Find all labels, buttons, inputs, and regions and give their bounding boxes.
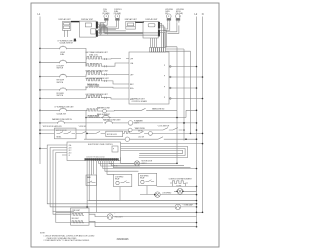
relay K3 [114, 174, 132, 186]
junction [183, 129, 185, 131]
connector bar J4B [158, 30, 160, 37]
wire [121, 157, 135, 163]
junction [202, 143, 204, 145]
junction [176, 163, 178, 165]
svg-text:J4 D: J4 D [69, 152, 72, 154]
switch S11 hi limit [101, 115, 111, 119]
probe jack circle [125, 137, 129, 141]
element light A [72, 213, 84, 215]
junction L1 [39, 133, 41, 135]
junction [176, 191, 178, 193]
wire [40, 130, 128, 148]
svg-text:LF SW: LF SW [60, 52, 65, 54]
junction L1 [39, 89, 41, 91]
svg-text:WARMER ZONE LIMIT: WARMER ZONE LIMIT [103, 119, 121, 122]
junction [86, 133, 88, 135]
lamp oven DS2 [175, 204, 180, 209]
junction L1 [39, 48, 41, 50]
switch S7 warmer limit [104, 120, 114, 124]
element RR surface [87, 78, 104, 81]
junction [196, 129, 198, 131]
svg-text:L1: L1 [38, 13, 41, 16]
wire [86, 86, 126, 88]
wire row RR [40, 76, 58, 78]
wire [103, 63, 126, 67]
wire [68, 109, 86, 111]
svg-text:LOW SPEED: LOW SPEED [115, 176, 123, 178]
junction [176, 117, 178, 119]
control pot VR4 [176, 9, 184, 23]
svg-text:* LOCK SW: * LOCK SW [78, 126, 87, 128]
control pot VR2 [114, 9, 122, 23]
switch S4 RF surface [58, 87, 68, 91]
switch S3 RR surface [58, 74, 68, 78]
junction [202, 133, 204, 135]
wire [140, 194, 197, 196]
control pot VR1 [102, 9, 110, 23]
junction [202, 212, 204, 214]
wire [84, 138, 125, 140]
svg-text:DISPLAY UNIT: DISPLAY UNIT [59, 18, 72, 21]
junction L1 [39, 62, 41, 64]
relay K4 vent fan [138, 173, 156, 185]
svg-text:LOW RISE: LOW RISE [176, 9, 184, 11]
wire pots to bundle [99, 23, 179, 35]
wire [68, 74, 86, 76]
node L2 [195, 13, 198, 227]
element warm zone [88, 85, 100, 88]
svg-text:OVEN: OVEN [165, 11, 170, 13]
svg-text:P: P [113, 148, 114, 150]
svg-text:LOW SPEED: LOW SPEED [162, 193, 172, 195]
svg-text:S-DUAL SW: S-DUAL SW [57, 113, 67, 116]
wire [85, 111, 87, 139]
wire EOC J4 loop [56, 153, 197, 223]
motor M3 cooling fan [155, 192, 160, 197]
display unit 4 [143, 18, 158, 38]
svg-text:J2 B: J2 B [69, 147, 72, 149]
wire [114, 122, 128, 124]
wire [86, 73, 126, 75]
wire [53, 211, 56, 213]
junction [182, 191, 184, 193]
svg-text:BROIL: BROIL [176, 11, 181, 13]
wire [68, 62, 86, 66]
wire [66, 122, 103, 124]
junction [196, 222, 198, 224]
switch S2 LR surface [58, 60, 68, 64]
node L1 [38, 13, 41, 164]
svg-text:MOTOR DOOR: MOTOR DOOR [56, 130, 67, 132]
connector bar J2A [96, 22, 98, 29]
node N [202, 13, 204, 212]
junction [86, 206, 88, 208]
motor M2 convection fan [177, 188, 183, 194]
svg-text:J3 C: J3 C [69, 150, 72, 152]
svg-text:J1 A: J1 A [69, 144, 72, 147]
svg-text:BAKE: BAKE [87, 176, 91, 179]
wire [106, 109, 196, 112]
junction L1 [39, 110, 41, 112]
element bake hidden [88, 115, 100, 117]
junction [196, 122, 198, 124]
junction [183, 122, 185, 124]
wire [132, 132, 138, 134]
svg-text:* MEAT PROBE: * MEAT PROBE [134, 127, 145, 130]
svg-text:J5: J5 [69, 155, 71, 157]
wire [130, 138, 156, 140]
wire row LF [40, 47, 58, 49]
ribbon connector P1 [71, 21, 80, 22]
svg-text:TB MDL: TB MDL [56, 136, 62, 138]
wire EOC J2 loop [50, 148, 175, 207]
svg-text:CON-: CON- [103, 9, 108, 11]
wire row warm zone [40, 97, 86, 99]
wire [89, 132, 94, 134]
svg-text:L2: L2 [195, 13, 198, 16]
lock switch S10 [155, 137, 197, 139]
wire [86, 97, 126, 99]
svg-text:SWITCH: SWITCH [57, 68, 64, 70]
element RF surface [87, 95, 104, 98]
switch S9c [138, 131, 149, 133]
junction [196, 186, 198, 188]
svg-text:*: * [115, 214, 116, 216]
element convection [172, 181, 185, 184]
connector blob [74, 39, 76, 42]
element probe [125, 131, 132, 133]
wire [84, 214, 107, 227]
wire [140, 162, 178, 164]
wire [132, 129, 159, 131]
motor M1 door latch [135, 161, 140, 166]
wire [103, 80, 126, 84]
svg-text:RF A: RF A [130, 87, 133, 90]
wire [174, 186, 197, 191]
svg-text:DISPLAY UNIT: DISPLAY UNIT [81, 18, 94, 21]
svg-text:CONTROL: CONTROL [114, 9, 122, 11]
board left pins [126, 58, 134, 101]
svg-text:OVN LIGHT: OVN LIGHT [115, 217, 123, 219]
wire EOC J1 loop [47, 145, 196, 204]
switch S12 [140, 108, 149, 110]
junction [196, 226, 198, 228]
indicator warm zone [103, 109, 107, 113]
junction [196, 168, 198, 170]
wire [86, 109, 103, 112]
control pot VR3 [165, 9, 173, 23]
switch S5 warmer [58, 108, 68, 112]
svg-text:NOTE:: NOTE: [40, 232, 46, 234]
wire row LR [40, 61, 58, 63]
junction [39, 129, 41, 131]
element LR surface [87, 72, 104, 75]
svg-text:BR LIGHT: BR LIGHT [72, 218, 79, 220]
notes text [40, 232, 95, 242]
oven light assembly [71, 208, 89, 225]
svg-text:DUAL COIL: DUAL COIL [89, 53, 98, 56]
display unit 1 [59, 18, 72, 37]
junction L1 [39, 76, 41, 78]
lock switch S8 [159, 128, 182, 130]
wire [68, 86, 86, 90]
lock switch S9 [80, 131, 89, 133]
relay K2 [86, 175, 97, 186]
svg-text:1 2 3 4 5 6 7 8 9 10 11 12 13: 1 2 3 4 5 6 7 8 9 10 11 12 13 14 [86, 156, 105, 158]
connector bar J4A [158, 22, 160, 29]
junction [196, 66, 198, 68]
wire EOC drops [87, 161, 196, 213]
svg-text:TROL: TROL [103, 11, 107, 13]
wire [170, 183, 188, 186]
junction [183, 122, 185, 124]
border frame [31, 3, 219, 247]
wire [152, 132, 202, 134]
wire right bundle [166, 47, 191, 164]
junction [154, 194, 156, 196]
wire box feeds [91, 186, 147, 201]
junction [85, 117, 87, 119]
svg-text:LF A: LF A [130, 62, 133, 65]
svg-text:RF P: RF P [130, 99, 133, 101]
junction [202, 98, 204, 100]
junction [196, 194, 198, 196]
junction [196, 87, 198, 89]
svg-text:CONVECTION HEAT ELEMENT: CONVECTION HEAT ELEMENT [169, 178, 192, 181]
switch S6 warmer zone [56, 120, 66, 124]
wire hairpin loops [121, 146, 188, 157]
ribbon connector P3 [135, 22, 143, 23]
svg-text:* LOCK SWITCH: * LOCK SWITCH [157, 125, 170, 127]
wire EOC out row [121, 143, 203, 145]
lamp oven light DS1 [107, 214, 113, 220]
connector bar J2B [96, 30, 98, 36]
svg-text:WARM ZONE IND: WARM ZONE IND [152, 107, 165, 110]
svg-text:BAKE ELEMENT: BAKE ELEMENT [97, 113, 110, 116]
svg-text:RR P: RR P [130, 84, 134, 86]
svg-text:MOTOR DOOR: MOTOR DOOR [142, 161, 153, 163]
svg-text:DISPLAY UNIT: DISPLAY UNIT [145, 18, 158, 21]
wire [85, 97, 87, 100]
element LF dual coil B [87, 64, 103, 67]
svg-text:OVN LIGHT: OVN LIGHT [72, 210, 80, 212]
junction [196, 110, 198, 112]
svg-text:LF P: LF P [130, 58, 133, 60]
wire [53, 212, 197, 217]
svg-text:LOW RISE: LOW RISE [165, 9, 173, 11]
box MDL motor [106, 131, 123, 136]
switch S9b [94, 131, 105, 133]
svg-text:LOC SW: LOC SW [138, 137, 145, 139]
wire [50, 206, 196, 208]
wire EOC J3 loop [53, 150, 74, 212]
svg-text:SWITCH: SWITCH [57, 82, 64, 84]
svg-text:WARMER ZONE: WARMER ZONE [97, 107, 111, 110]
wire [86, 56, 121, 66]
wire [133, 122, 197, 124]
svg-text:318200426: 318200426 [117, 238, 130, 241]
element warmer zone [87, 109, 99, 111]
junction [39, 148, 41, 150]
svg-text:P WARMER: P WARMER [134, 120, 144, 123]
EOC bottom terminal strip [85, 158, 119, 160]
wire bottom long [56, 211, 203, 213]
element LF dual coil A [87, 56, 103, 59]
surface unit control board U2 [129, 48, 169, 105]
wire [83, 214, 85, 221]
EOC left pins [62, 144, 71, 157]
svg-text:DISPLAY UNIT: DISPLAY UNIT [125, 18, 138, 21]
wire row 130 [127, 129, 129, 131]
terminal circle T1 [149, 132, 153, 136]
svg-text:1 CIRCUIT SHOWN WITH ALL CON: 1 CIRCUIT SHOWN WITH ALL CONTROLS OFF AN… [44, 234, 96, 237]
svg-text:HIGH SPEED: HIGH SPEED [140, 175, 149, 177]
wire bundle drop to board [151, 23, 167, 47]
svg-text:P: P [164, 65, 165, 67]
pilot lamp warm [128, 121, 133, 126]
svg-text:WARMER ZONE SWITCH: WARMER ZONE SWITCH [52, 118, 73, 121]
svg-text:S-DUAL SWITCH: S-DUAL SWITCH [60, 42, 74, 45]
junction L1 [39, 122, 41, 124]
wire [68, 48, 86, 56]
svg-text:LF SURFACE LINE UNIT: LF SURFACE LINE UNIT [55, 106, 74, 109]
wire bus from connector bars [98, 23, 158, 36]
wire [123, 132, 125, 134]
svg-text:N: N [202, 13, 204, 16]
svg-text:ELECTRONIC OVEN CONTROL: ELECTRONIC OVEN CONTROL [88, 144, 113, 146]
svg-text:P: P [164, 87, 165, 89]
junction [196, 212, 198, 214]
svg-text:SW 93: SW 93 [138, 131, 143, 133]
wire row warmer [40, 109, 58, 111]
junction [196, 138, 198, 140]
wire row oven [40, 122, 56, 124]
wire row 200.5 [87, 200, 196, 202]
svg-text:P: P [164, 76, 165, 78]
svg-text:LR P: LR P [130, 74, 133, 76]
junction [196, 206, 198, 208]
wire row RF [40, 89, 58, 91]
svg-text:REAR TEMP SURFACE UNIT: REAR TEMP SURFACE UNIT [86, 70, 109, 73]
board right pins [164, 65, 203, 99]
svg-text:SWITCH: SWITCH [57, 95, 64, 97]
wire conv row [157, 185, 197, 187]
switch S1 LF surface [58, 46, 68, 50]
svg-text:* MOTOR DOOR LATCH SW: * MOTOR DOOR LATCH SW [42, 125, 62, 128]
element light B [72, 221, 84, 223]
svg-text:CONTROL BOARD: CONTROL BOARD [132, 100, 148, 103]
controller U1 EOC [67, 142, 121, 161]
junction [185, 138, 187, 140]
junction [190, 133, 192, 135]
junction [202, 76, 204, 78]
junction [196, 200, 198, 202]
junction [196, 203, 198, 205]
svg-text:MOTOR DOOR: MOTOR DOOR [107, 134, 117, 136]
svg-text:P: P [164, 97, 165, 99]
display unit 2 [79, 18, 96, 37]
junction L1 [39, 98, 41, 100]
relay K1 door latch [54, 128, 76, 139]
wire [40, 132, 80, 134]
wire bottom row [95, 226, 197, 228]
wire hi limit [86, 110, 186, 117]
display unit 3 [125, 18, 138, 29]
terminal circle T2 [128, 128, 132, 132]
